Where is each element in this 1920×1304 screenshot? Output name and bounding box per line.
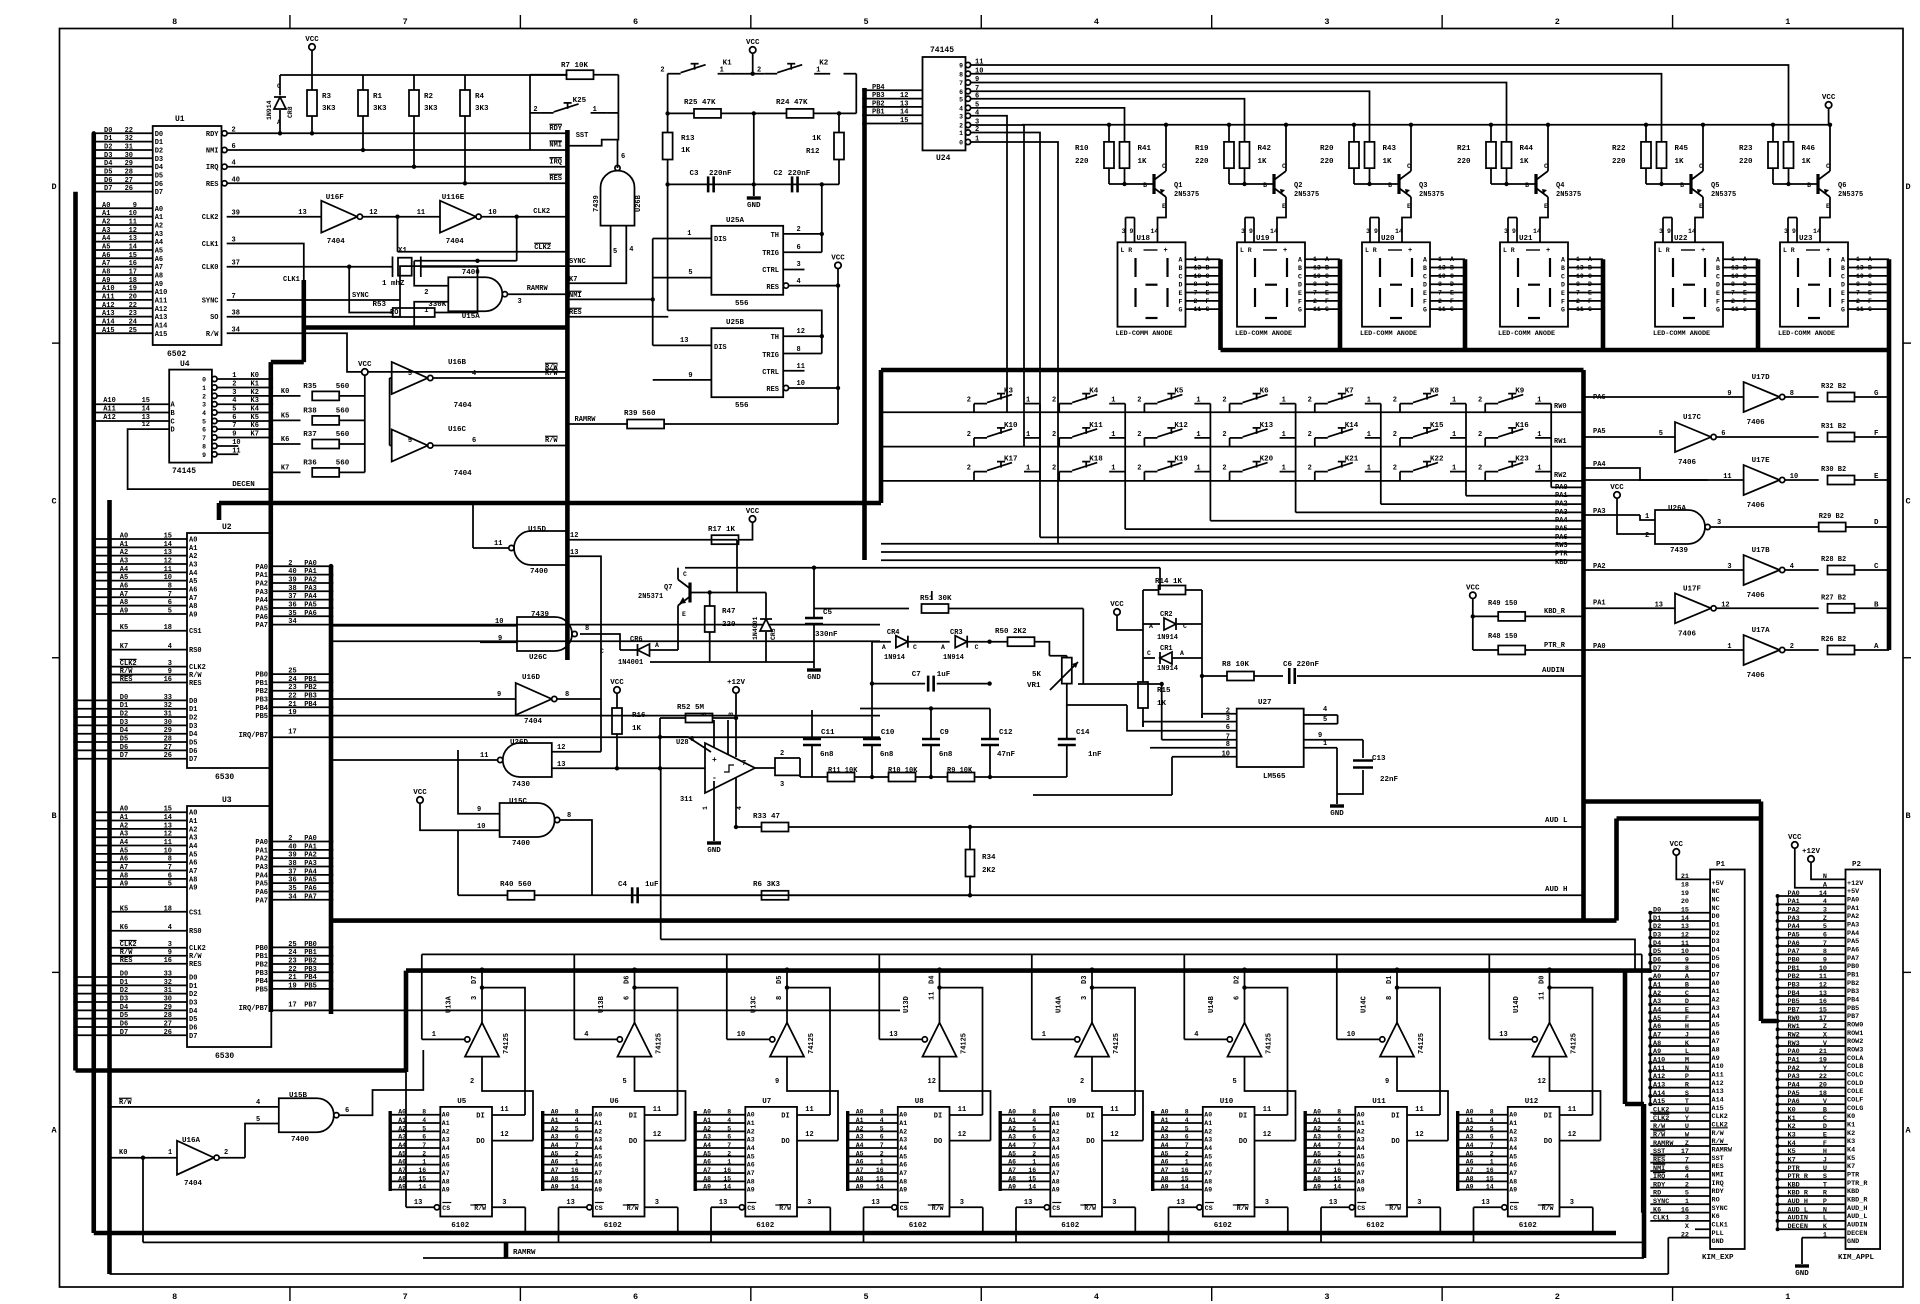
- svg-text:A0: A0: [551, 1109, 559, 1116]
- svg-text:5: 5: [959, 96, 963, 103]
- svg-text:A1: A1: [1008, 1117, 1016, 1124]
- wire U3 A4: [94, 845, 187, 847]
- wire enable U14C: [1337, 1038, 1380, 1040]
- svg-text:A2: A2: [1052, 1128, 1060, 1135]
- svg-text:D6: D6: [1712, 963, 1720, 971]
- wire NMI row: [227, 149, 568, 151]
- svg-text:27: 27: [164, 1020, 172, 1028]
- wire K5 column: [1209, 404, 1211, 521]
- svg-text:R30 B2: R30 B2: [1821, 466, 1846, 474]
- svg-text:7: 7: [1032, 1142, 1036, 1149]
- svg-text:D4: D4: [155, 164, 163, 172]
- svg-text:11: 11: [1194, 306, 1202, 313]
- wire U16A out: [219, 1157, 245, 1159]
- wire base Q4: [1491, 183, 1536, 185]
- svg-text:2: 2: [880, 1150, 884, 1157]
- svg-text:311: 311: [680, 796, 693, 804]
- svg-text:A9: A9: [1357, 1187, 1365, 1194]
- svg-text:A0: A0: [1204, 1112, 1212, 1119]
- svg-text:A5: A5: [102, 243, 110, 251]
- wire keyboard row RW0: [881, 411, 1584, 413]
- svg-text:9: 9: [202, 452, 206, 459]
- svg-text:F: F: [1206, 298, 1210, 305]
- svg-text:A5: A5: [189, 578, 197, 586]
- svg-text:4: 4: [202, 410, 206, 417]
- svg-text:13: 13: [298, 209, 306, 217]
- svg-text:PA1: PA1: [1847, 905, 1859, 913]
- wire U28 pin6: [660, 737, 711, 752]
- svg-text:15: 15: [1486, 1175, 1494, 1182]
- wire CR5 top: [765, 593, 767, 605]
- svg-text:19: 19: [1681, 890, 1689, 898]
- svg-text:L R: L R: [1503, 247, 1515, 254]
- switch K23: [1485, 471, 1498, 473]
- svg-text:11: 11: [958, 1106, 966, 1114]
- svg-text:A0: A0: [1052, 1112, 1060, 1119]
- svg-text:RAMRW: RAMRW: [1653, 1140, 1674, 1148]
- svg-text:GND: GND: [1330, 810, 1344, 818]
- svg-text:3: 3: [502, 1199, 506, 1207]
- svg-text:2: 2: [470, 1078, 474, 1086]
- svg-text:11: 11: [1438, 306, 1446, 313]
- svg-text:A2: A2: [1712, 997, 1720, 1005]
- svg-text:7: 7: [727, 1142, 731, 1149]
- svg-text:9: 9: [1727, 390, 1731, 398]
- svg-text:F: F: [1841, 298, 1845, 305]
- svg-text:5: 5: [408, 437, 412, 445]
- border column tick: [289, 15, 291, 29]
- svg-text:A1: A1: [120, 541, 128, 549]
- svg-text:6102: 6102: [1061, 1222, 1080, 1230]
- svg-text:7: 7: [1337, 1142, 1341, 1149]
- svg-text:A1: A1: [1313, 1117, 1321, 1124]
- svg-text:6102: 6102: [909, 1222, 928, 1230]
- svg-text:D7: D7: [189, 1033, 197, 1041]
- svg-text:IRQ/PB7: IRQ/PB7: [239, 732, 268, 740]
- wire AUD H row: [458, 894, 508, 896]
- wire CS U8: [892, 1205, 897, 1210]
- svg-text:C: C: [1423, 273, 1427, 280]
- svg-text:PA1: PA1: [255, 847, 268, 855]
- svg-text:7: 7: [403, 1292, 408, 1302]
- buffer U13D 74125: [923, 1023, 957, 1057]
- svg-text:D7: D7: [1712, 972, 1720, 980]
- svg-text:8: 8: [1731, 281, 1735, 288]
- wire U14B to DI: [1245, 988, 1288, 1115]
- svg-text:10: 10: [797, 380, 805, 388]
- svg-text:A10: A10: [155, 289, 168, 297]
- svg-text:D: D: [1423, 282, 1427, 289]
- svg-text:ROW3: ROW3: [1847, 1047, 1863, 1055]
- svg-text:R16: R16: [632, 712, 646, 720]
- wire U27 pin10: [1172, 756, 1202, 758]
- switch K19: [1144, 471, 1157, 473]
- svg-text:U13C: U13C: [751, 996, 759, 1013]
- wire C9C10 top rail: [860, 708, 990, 710]
- wire A11 to U1: [94, 299, 153, 301]
- svg-text:A9: A9: [1204, 1187, 1212, 1194]
- svg-text:RDY: RDY: [549, 125, 562, 133]
- svg-text:3: 3: [1659, 228, 1663, 235]
- ground P2: [1795, 1264, 1809, 1267]
- wire U15C out right: [560, 820, 592, 895]
- svg-text:14: 14: [1270, 228, 1278, 235]
- svg-text:R25 47K: R25 47K: [684, 99, 716, 107]
- svg-text:A11: A11: [1712, 1071, 1724, 1079]
- wire U2 A6: [94, 588, 187, 590]
- svg-text:4: 4: [727, 1117, 731, 1124]
- svg-text:A8: A8: [1712, 1047, 1720, 1055]
- svg-text:PTR: PTR: [1788, 1165, 1801, 1173]
- svg-text:7: 7: [1856, 290, 1860, 297]
- resistor R35 560: [271, 395, 301, 397]
- wire U2 A2: [94, 555, 187, 557]
- svg-text:9: 9: [477, 806, 481, 814]
- svg-text:2: 2: [1555, 1292, 1560, 1302]
- svg-text:1: 1: [1367, 431, 1371, 439]
- svg-text:NC: NC: [1712, 888, 1720, 896]
- resistor R30 B2: [1828, 476, 1855, 485]
- svg-text:PA5: PA5: [304, 877, 317, 885]
- svg-text:PA6: PA6: [304, 885, 317, 893]
- svg-text:RD: RD: [1653, 1190, 1661, 1198]
- svg-text:2K2: 2K2: [982, 867, 996, 875]
- power VCC K1K2: [750, 47, 756, 53]
- svg-text:PA6: PA6: [255, 889, 268, 897]
- svg-text:14: 14: [1333, 1184, 1341, 1191]
- svg-text:A6: A6: [551, 1159, 559, 1166]
- svg-text:A7: A7: [398, 1167, 406, 1174]
- svg-text:A8: A8: [1466, 1175, 1474, 1182]
- svg-text:Q4: Q4: [1556, 182, 1564, 190]
- svg-text:14: 14: [164, 541, 172, 549]
- wire U17A input: [1584, 649, 1744, 651]
- resistor R39 560: [627, 420, 664, 429]
- svg-text:13: 13: [566, 1199, 574, 1207]
- wire U15C in 9: [458, 750, 500, 814]
- svg-text:PB3: PB3: [255, 697, 268, 705]
- svg-text:CS: CS: [900, 1205, 908, 1212]
- svg-text:11: 11: [232, 447, 240, 455]
- ic U2 6530: [187, 533, 271, 768]
- svg-text:2: 2: [1052, 397, 1056, 405]
- svg-text:A6: A6: [1712, 1030, 1720, 1038]
- svg-text:U14A: U14A: [1056, 995, 1064, 1013]
- svg-text:CS1: CS1: [189, 628, 202, 636]
- wire U2 A7: [94, 596, 187, 598]
- svg-text:1N914: 1N914: [1157, 634, 1178, 642]
- border row tick: [52, 342, 60, 344]
- svg-text:E: E: [1868, 290, 1872, 297]
- svg-text:A3: A3: [1653, 998, 1661, 1006]
- svg-text:PB1: PB1: [304, 676, 317, 684]
- ic U27 LM565: [1237, 709, 1304, 767]
- wire U13A pin2 to DO: [482, 1057, 533, 1141]
- svg-text:4: 4: [1094, 17, 1099, 27]
- svg-text:PA5: PA5: [1847, 938, 1859, 946]
- svg-text:PB7: PB7: [1788, 1006, 1800, 1014]
- led display U23: [1780, 242, 1848, 326]
- svg-text:U16A: U16A: [182, 1137, 201, 1145]
- svg-text:6: 6: [1032, 1134, 1036, 1141]
- svg-text:A2: A2: [1357, 1128, 1365, 1135]
- svg-text:U26B: U26B: [635, 194, 643, 212]
- svg-text:7: 7: [1185, 1142, 1189, 1149]
- svg-text:CR1: CR1: [1160, 645, 1173, 653]
- svg-text:11: 11: [1723, 473, 1731, 481]
- wire SO RO: [227, 316, 400, 318]
- svg-text:KBD_R: KBD_R: [1544, 608, 1566, 616]
- svg-text:R/W: R/W: [189, 953, 202, 961]
- svg-text:A7: A7: [1161, 1167, 1169, 1174]
- svg-text:RW0: RW0: [1554, 403, 1567, 411]
- svg-text:2: 2: [1337, 1150, 1341, 1157]
- svg-text:D1: D1: [189, 983, 197, 991]
- svg-text:AUD_H: AUD_H: [1847, 1205, 1867, 1213]
- svg-text:PB2: PB2: [255, 688, 268, 696]
- buffer U13C 74125: [770, 1023, 804, 1057]
- svg-text:K8: K8: [1430, 388, 1440, 396]
- bus RAM data thick horizontal: [406, 968, 1651, 973]
- svg-text:1nF: 1nF: [1088, 751, 1102, 759]
- svg-text:R10 10K: R10 10K: [888, 767, 918, 775]
- svg-text:A4: A4: [1008, 1142, 1016, 1149]
- wire K25 to R7: [617, 75, 619, 113]
- ic U24 74145: [923, 57, 966, 150]
- svg-text:32: 32: [164, 979, 172, 987]
- svg-text:A1: A1: [1204, 1120, 1212, 1127]
- svg-text:RO: RO: [390, 309, 398, 317]
- wire U3 A8: [94, 878, 187, 880]
- svg-text:12: 12: [1568, 1131, 1576, 1139]
- wire U3 A7: [94, 870, 187, 872]
- U4 output 7 K6: [212, 427, 217, 432]
- svg-text:1: 1: [1313, 256, 1317, 263]
- svg-text:PA6: PA6: [304, 610, 317, 618]
- wire U2 RES: [111, 682, 187, 684]
- svg-text:D5: D5: [120, 736, 128, 744]
- svg-text:A12: A12: [1712, 1080, 1724, 1088]
- svg-text:PA5: PA5: [1593, 428, 1606, 436]
- svg-text:PA2: PA2: [304, 576, 317, 584]
- svg-text:D3: D3: [1712, 938, 1720, 946]
- wire K0 row: [111, 1157, 177, 1159]
- svg-text:A2: A2: [155, 222, 163, 230]
- svg-text:A3: A3: [1052, 1137, 1060, 1144]
- svg-text:1K: 1K: [1258, 158, 1268, 166]
- wire keyboard column PA1: [1125, 528, 1583, 530]
- svg-text:R/W: R/W: [545, 437, 558, 445]
- svg-text:2: 2: [1308, 465, 1312, 473]
- svg-text:3: 3: [1727, 563, 1731, 571]
- switch K21: [1315, 471, 1328, 473]
- svg-text:A2: A2: [1161, 1125, 1169, 1132]
- svg-text:D2: D2: [1234, 976, 1242, 984]
- svg-text:R15: R15: [1157, 687, 1171, 695]
- bus PA thick vertical right of U2: [329, 566, 334, 1014]
- wire U26C in 10: [331, 625, 517, 627]
- svg-text:VCC: VCC: [1610, 484, 1624, 492]
- svg-text:74125: 74125: [961, 1033, 969, 1054]
- svg-text:D7: D7: [471, 976, 479, 984]
- svg-text:10: 10: [1194, 273, 1202, 280]
- svg-text:PB7: PB7: [304, 1002, 317, 1010]
- wire enable U13C: [727, 1038, 770, 1040]
- svg-text:A0: A0: [1712, 980, 1720, 988]
- svg-text:23: 23: [129, 310, 137, 318]
- svg-text:RDY: RDY: [1653, 1181, 1666, 1189]
- svg-text:D1: D1: [104, 135, 112, 143]
- svg-text:8: 8: [422, 1109, 426, 1116]
- svg-text:A5: A5: [1653, 1015, 1661, 1023]
- wire A1 to U1: [94, 216, 153, 218]
- svg-text:D4: D4: [929, 976, 937, 984]
- svg-text:DO: DO: [629, 1138, 637, 1146]
- svg-text:4: 4: [1194, 1031, 1198, 1039]
- svg-text:PA0: PA0: [304, 835, 317, 843]
- svg-text:K18: K18: [1089, 456, 1103, 464]
- svg-text:DIS: DIS: [714, 236, 727, 244]
- svg-text:15: 15: [164, 806, 172, 814]
- svg-text:R/W: R/W: [1542, 1205, 1554, 1212]
- U24 output 8: [965, 71, 970, 76]
- svg-text:CTRL: CTRL: [762, 267, 779, 275]
- resistor R22 220: [1645, 125, 1647, 142]
- svg-text:8: 8: [202, 444, 206, 451]
- svg-text:11: 11: [500, 1106, 508, 1114]
- svg-text:D: D: [1841, 282, 1845, 289]
- svg-text:4: 4: [1032, 1117, 1036, 1124]
- svg-text:U15B: U15B: [289, 1092, 308, 1100]
- svg-text:L R: L R: [1658, 247, 1670, 254]
- wire U13B output to bus: [634, 970, 636, 1023]
- svg-text:13: 13: [1856, 265, 1864, 272]
- svg-text:13: 13: [1576, 265, 1584, 272]
- wire U17E input: [1584, 479, 1744, 481]
- wire P1 GND return: [1667, 1238, 1669, 1274]
- svg-text:30: 30: [125, 152, 133, 160]
- wire keyboard column PA6: [1551, 486, 1583, 488]
- svg-text:2: 2: [959, 123, 963, 130]
- resistor R24 47K: [787, 109, 814, 118]
- resistor R7 10K: [530, 74, 567, 76]
- wire U25B TH: [783, 335, 822, 337]
- svg-text:3: 3: [780, 781, 784, 789]
- svg-text:1: 1: [1196, 397, 1200, 405]
- wire keyboard row RW2: [881, 480, 1584, 482]
- svg-text:E: E: [1325, 290, 1329, 297]
- wire U2 IRQ/PB7: [271, 736, 880, 738]
- svg-text:8: 8: [172, 1292, 177, 1302]
- svg-text:1: 1: [1111, 465, 1115, 473]
- svg-text:G: G: [1561, 307, 1565, 314]
- svg-text:RAMRW: RAMRW: [527, 285, 549, 293]
- svg-text:D5: D5: [189, 740, 197, 748]
- svg-text:R44: R44: [1520, 145, 1534, 153]
- svg-text:PA3: PA3: [304, 585, 317, 593]
- svg-text:PB1: PB1: [255, 680, 268, 688]
- svg-text:26: 26: [164, 752, 172, 760]
- svg-text:C: C: [1868, 273, 1872, 280]
- switch K22: [1400, 471, 1413, 473]
- svg-text:CLK2: CLK2: [533, 208, 550, 216]
- svg-text:RW2: RW2: [1554, 472, 1567, 480]
- svg-text:12: 12: [500, 1131, 508, 1139]
- svg-text:A9: A9: [1653, 1048, 1661, 1056]
- svg-text:2: 2: [422, 1150, 426, 1157]
- wire display pins 3 9 Q1: [1126, 217, 1135, 219]
- svg-text:D4: D4: [189, 1008, 197, 1016]
- svg-text:5: 5: [1490, 1125, 1494, 1132]
- wire DO U9: [1102, 1140, 1143, 1142]
- wire A6 to U1: [94, 257, 153, 259]
- ram U6 6102: [593, 1107, 645, 1217]
- switch K3: [974, 403, 987, 405]
- svg-text:RS0: RS0: [189, 928, 202, 936]
- svg-text:K0: K0: [281, 388, 289, 396]
- svg-text:D1: D1: [1653, 915, 1661, 923]
- svg-text:1: 1: [687, 230, 691, 238]
- svg-text:F: F: [1325, 298, 1329, 305]
- svg-text:PA5: PA5: [255, 605, 268, 613]
- svg-text:VCC: VCC: [413, 789, 427, 797]
- wire U2 A5: [94, 580, 187, 582]
- svg-text:74125: 74125: [1266, 1033, 1274, 1054]
- svg-text:15: 15: [164, 533, 172, 541]
- svg-text:6: 6: [1185, 1134, 1189, 1141]
- svg-text:A4: A4: [442, 1145, 450, 1152]
- wire U27 pin3 from R15: [1143, 722, 1202, 727]
- wire CS U7: [739, 1205, 744, 1210]
- svg-text:PA4: PA4: [1555, 517, 1568, 525]
- svg-text:R47: R47: [722, 608, 736, 616]
- svg-text:1: 1: [702, 806, 709, 810]
- svg-text:A7: A7: [551, 1167, 559, 1174]
- svg-text:2: 2: [1393, 465, 1397, 473]
- wire CLK2 out to bus: [481, 216, 567, 218]
- svg-text:220nF: 220nF: [788, 170, 811, 178]
- svg-text:+12V: +12V: [727, 679, 746, 687]
- wire U28 pin5 pin8 top: [713, 720, 715, 748]
- wire DO U11: [1407, 1140, 1448, 1142]
- inverter U16A 7404: [177, 1141, 214, 1175]
- svg-text:NMI: NMI: [569, 292, 582, 300]
- svg-text:A5: A5: [1008, 1150, 1016, 1157]
- svg-text:6: 6: [880, 1134, 884, 1141]
- svg-text:A9: A9: [1161, 1184, 1169, 1191]
- capacitor C7 1uF: [872, 683, 925, 685]
- svg-text:COLF: COLF: [1847, 1096, 1863, 1104]
- svg-text:C: C: [1561, 273, 1565, 280]
- capacitor C12 47nF: [981, 738, 999, 741]
- svg-text:31: 31: [164, 711, 172, 719]
- svg-text:PA0: PA0: [1555, 484, 1568, 492]
- svg-text:C11: C11: [821, 729, 835, 737]
- svg-text:PB3: PB3: [304, 693, 317, 701]
- svg-text:1: 1: [1282, 431, 1286, 439]
- svg-text:7: 7: [232, 422, 236, 430]
- svg-text:330nF: 330nF: [815, 631, 838, 639]
- svg-text:A9: A9: [120, 881, 128, 889]
- svg-text:14: 14: [1181, 1184, 1189, 1191]
- svg-text:D7: D7: [120, 752, 128, 760]
- svg-text:DO: DO: [1544, 1138, 1552, 1146]
- svg-text:14: 14: [1395, 228, 1403, 235]
- svg-text:SYNC: SYNC: [1712, 1205, 1728, 1213]
- svg-text:D0: D0: [189, 698, 197, 706]
- svg-text:30: 30: [164, 995, 172, 1003]
- svg-text:7439: 7439: [1670, 547, 1689, 555]
